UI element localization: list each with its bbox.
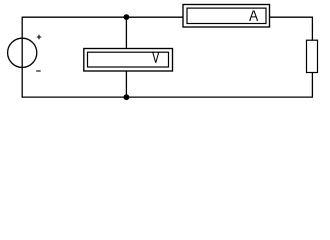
wire right side: down to resistor (311, 17, 313, 41)
voltmeter outer box (84, 49, 173, 72)
wire branch: top node down to voltmeter (125, 17, 127, 49)
voltmeter inner box (88, 52, 169, 67)
wire top-left: from source top corner to ammeter (22, 16, 183, 18)
wire right side: resistor to bottom corner (311, 73, 313, 98)
polarity - of source (36, 70, 41, 72)
resistor R1 (307, 40, 318, 72)
ammeter label A (249, 11, 258, 21)
wire top-right: ammeter to right corner (270, 16, 313, 18)
wire bottom: right corner to left corner (22, 96, 312, 98)
junction node bottom (124, 94, 130, 100)
wire left side: through voltage source (21, 17, 23, 98)
ammeter outer box (183, 5, 270, 28)
polarity + of source (37, 35, 41, 39)
ammeter inner box (187, 8, 266, 23)
voltage source V1 (circle) (8, 38, 37, 67)
junction node top (124, 14, 130, 20)
wire branch: voltmeter down to bottom node (125, 71, 127, 97)
voltmeter label V (152, 52, 160, 62)
